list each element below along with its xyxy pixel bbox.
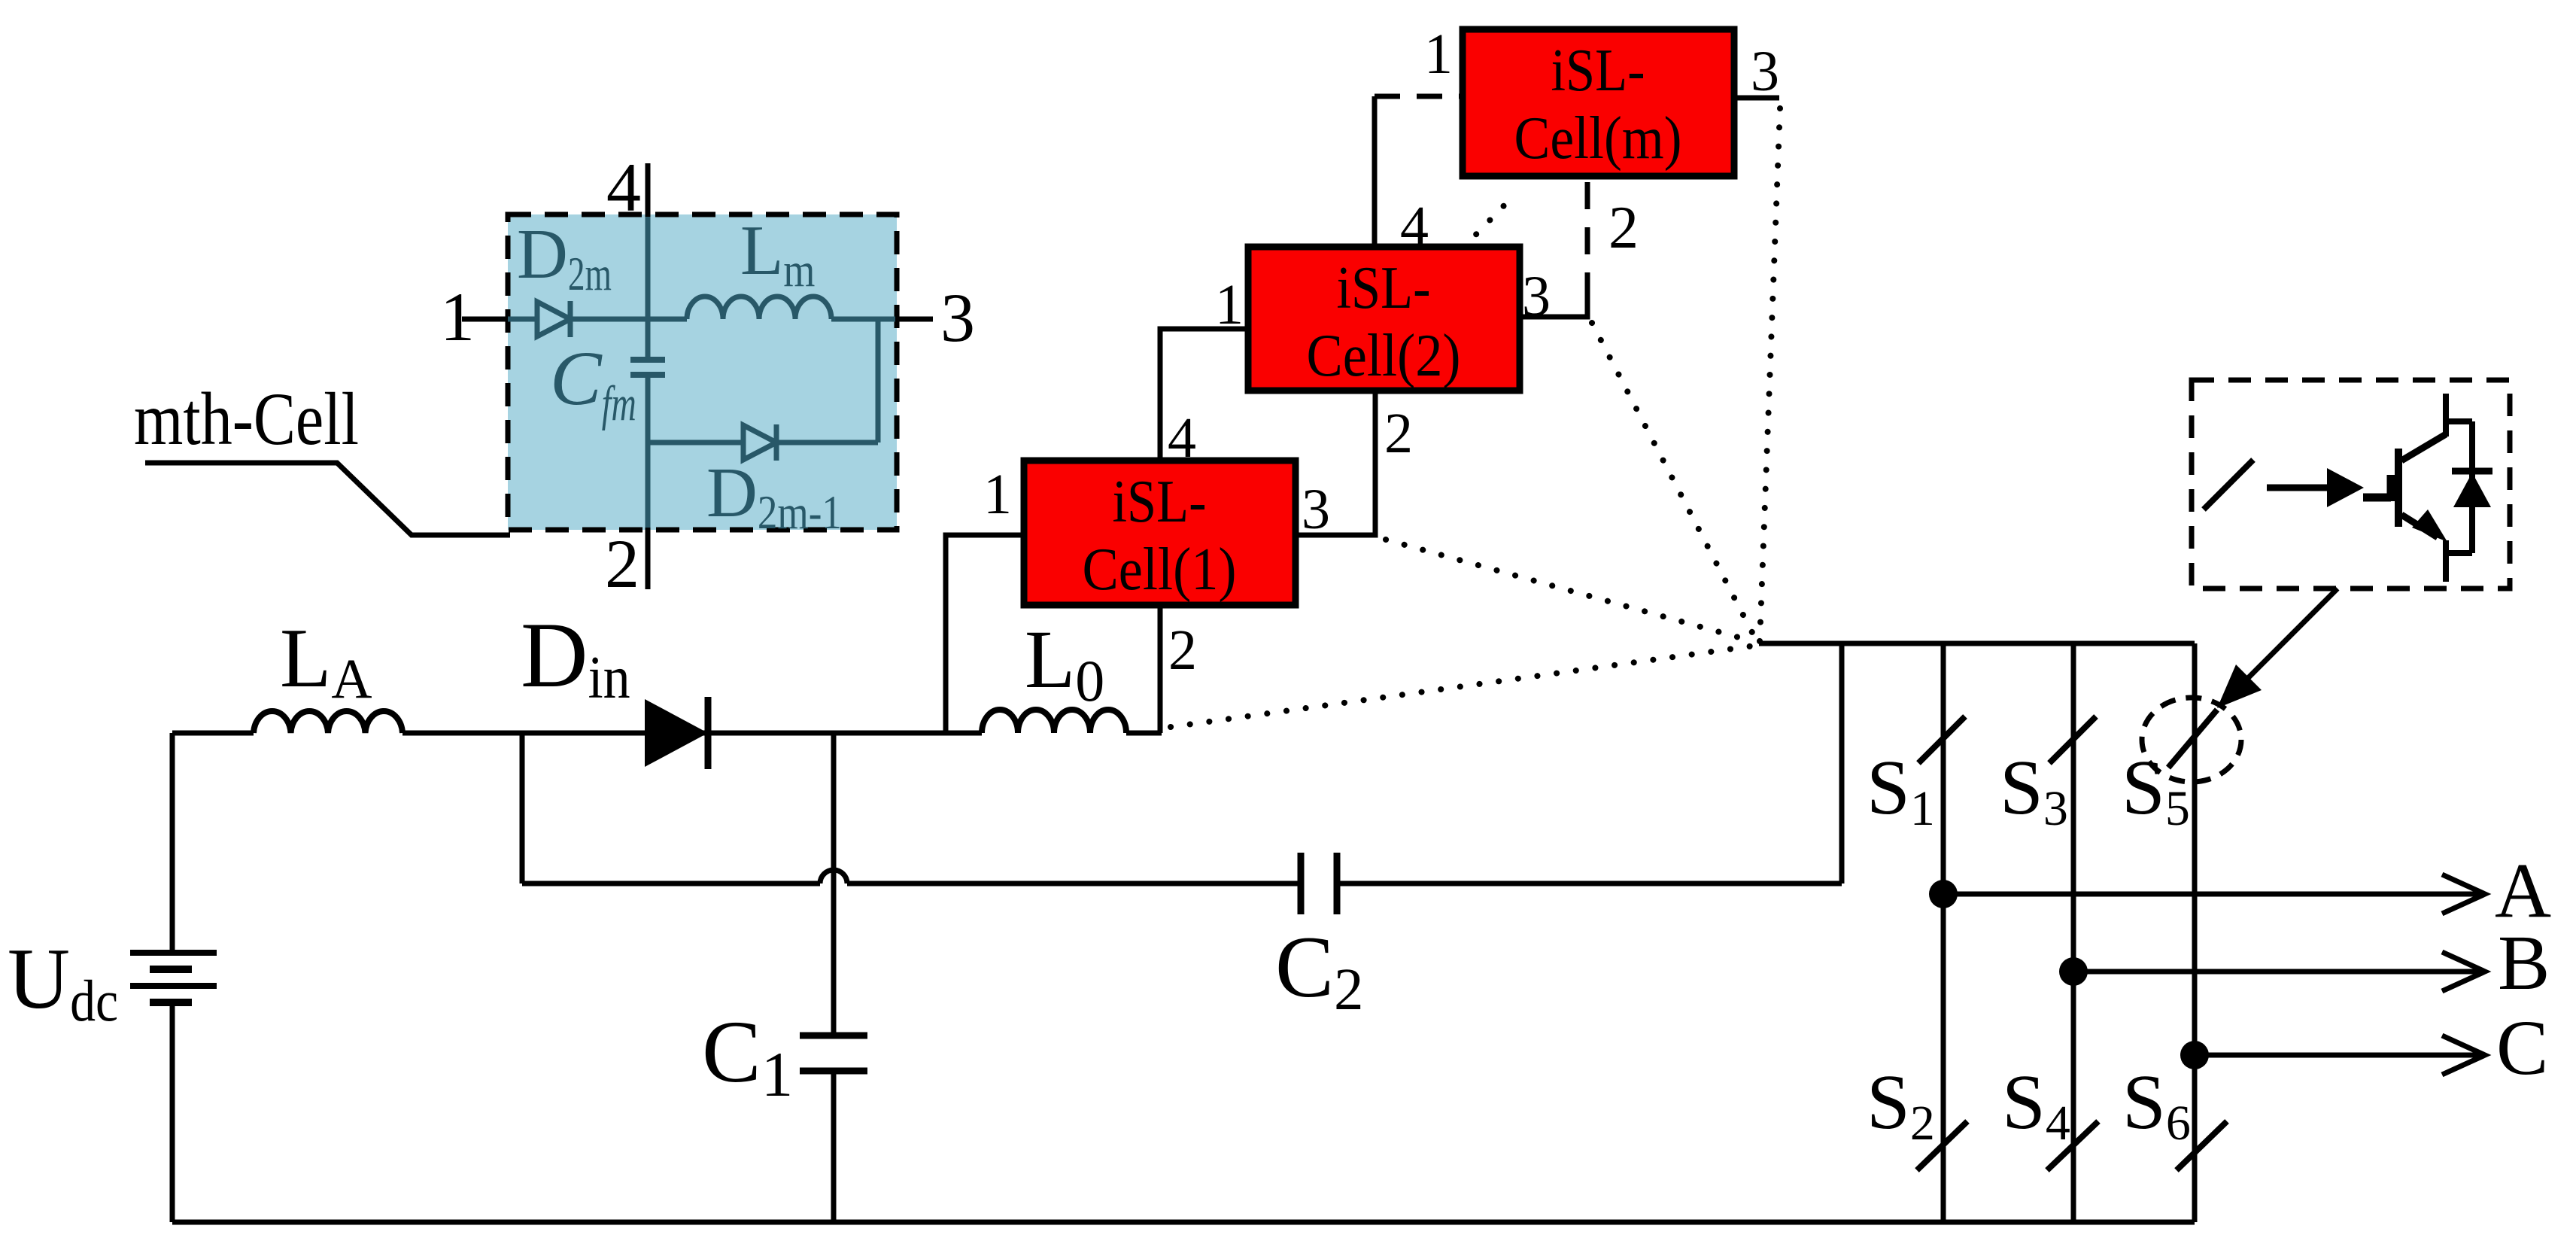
iSL-Cell(2) block: [1248, 247, 1520, 391]
wire: teal pin1 wire to diode D2m: [508, 317, 537, 322]
arrowhead phase A: [2442, 874, 2485, 914]
wire: arrow from detail box to S5 switch: [2236, 589, 2338, 690]
arrowhead phase B: [2442, 952, 2485, 991]
inductor Lm: [687, 297, 831, 319]
svg-text:S4: S4: [2002, 1059, 2070, 1151]
wire: input top wire from source to LA: [172, 731, 254, 736]
wire: C1 vertical upper: [831, 733, 837, 1036]
diode Din: [645, 697, 708, 769]
svg-text:LA: LA: [280, 612, 372, 710]
svg-text:3: 3: [1302, 478, 1330, 541]
wire: vertical drop before Din to C2 wire: [520, 733, 525, 884]
wire: cell1 pin4 to cell2 pin1: [1160, 329, 1248, 461]
svg-text:C: C: [2496, 1005, 2548, 1091]
svg-text:iSL-: iSL-: [1551, 36, 1645, 104]
wire: dotted link from cell1 pin3 to inverter rail: [1386, 540, 1755, 642]
svg-text:2: 2: [1608, 195, 1639, 261]
wire: dotted link from cellm pin3 to inverter rail: [1760, 108, 1780, 641]
svg-text:iSL-: iSL-: [1337, 254, 1431, 321]
wire: top wire from LA through Din to L0: [402, 731, 982, 736]
battery Udc: [130, 953, 217, 1002]
wire: cell2 pin4 vertical: [1372, 96, 1378, 247]
svg-text:B: B: [2498, 920, 2550, 1006]
svg-text:3: 3: [1522, 265, 1551, 328]
wire: teal center vertical lower: [646, 376, 651, 528]
iSL-Cell(m) block: [1463, 29, 1734, 176]
switch slash symbol inside detail box: [2204, 460, 2253, 509]
diode anti-parallel with IGBT: [2452, 421, 2492, 553]
svg-text:1: 1: [440, 278, 475, 355]
wire: C2 horizontal wire left part: [522, 881, 820, 887]
wire: cellm pin3 stub: [1734, 96, 1779, 101]
wire: L0 right terminal: [1126, 731, 1162, 736]
switch S2 slash: [1917, 1121, 1967, 1170]
inductor LA: [254, 711, 402, 733]
wire: teal center vertical upper: [646, 217, 651, 358]
svg-text:1: 1: [1215, 273, 1244, 336]
wire: teal right vertical: [876, 319, 881, 443]
wire: cell2 pin3 stub: [1520, 300, 1587, 317]
arrowhead phase C: [2442, 1036, 2485, 1075]
svg-text:Cell(1): Cell(1): [1083, 535, 1237, 603]
diode D2m-1: [743, 424, 776, 461]
svg-text:mth-Cell: mth-Cell: [134, 377, 359, 461]
arrow equivalence inside detail box: [2267, 468, 2364, 507]
wire: C2 horizontal wire right part: [1337, 881, 1842, 887]
wire: dotted link from L0 terminal to inverter rail: [1171, 646, 1754, 727]
wire: phase A output: [1943, 892, 2483, 897]
svg-text:1: 1: [983, 463, 1012, 526]
svg-text:S6: S6: [2122, 1059, 2191, 1151]
wire: pin2 stub of mth cell: [646, 528, 651, 589]
svg-text:Cell(2): Cell(2): [1307, 321, 1461, 389]
wire: bottom rail: [172, 1220, 2195, 1225]
wire: pointer from mth-Cell label to box: [145, 463, 510, 535]
wire: left vertical from top wire to battery: [170, 733, 175, 953]
switch S6 slash: [2177, 1121, 2227, 1170]
wire: phase C output: [2195, 1053, 2483, 1058]
switch S5 slash: [2168, 710, 2217, 768]
node A junction dot: [1929, 880, 1958, 908]
switch S1 slash: [1918, 716, 1965, 763]
wire: inverter leg S3 S4: [2071, 643, 2076, 1222]
capacitor Cfm: [630, 360, 665, 375]
wire: pin1 stub of mth cell: [462, 317, 508, 322]
wire: dotted link from cell2 pin3 to inverter rail: [1592, 323, 1756, 640]
svg-text:4: 4: [606, 149, 641, 226]
wire: pin4 stub of mth cell: [646, 163, 651, 217]
wire: inverter leg S5 S6: [2192, 643, 2198, 1222]
wire: teal wire D2m-1 to right vertical: [776, 440, 878, 446]
wire: inverter leg S1 S2: [1941, 643, 1946, 1222]
diode D2m: [537, 301, 570, 337]
svg-text:3: 3: [1751, 40, 1779, 103]
node C junction dot: [2180, 1041, 2209, 1069]
svg-text:3: 3: [940, 279, 975, 356]
wire: vertical from C2 wire up to inverter rail: [1839, 643, 1845, 884]
svg-text:Din: Din: [521, 604, 630, 711]
wire: left vertical from battery to bottom rail: [170, 1002, 175, 1222]
mth-Cell detail box: [508, 214, 897, 530]
svg-text:2: 2: [605, 525, 639, 602]
wire: pin3 stub of mth cell: [895, 317, 933, 322]
capacitor C2: [1301, 853, 1337, 914]
wire: crossover hop over C1 wire: [820, 870, 847, 884]
wire: teal wire diode D2m to center node: [570, 317, 687, 322]
switch S4 slash: [2047, 1121, 2098, 1170]
wire: C1 vertical lower: [831, 1071, 837, 1222]
inductor L0: [982, 710, 1126, 733]
svg-text:C1: C1: [702, 1002, 793, 1110]
svg-text:S2: S2: [1867, 1059, 1935, 1151]
svg-text:C2: C2: [1275, 919, 1364, 1023]
wire: cell1 pin3 to cell2 pin2 corner: [1296, 391, 1375, 535]
node B junction dot: [2059, 957, 2088, 986]
capacitor C1: [800, 1036, 867, 1071]
svg-text:4: 4: [1168, 406, 1196, 470]
transistor IGBT symbol: [2363, 394, 2472, 582]
dashed ellipse around S5 switch: [2142, 698, 2241, 782]
wire: inverter top rail: [1759, 641, 2195, 646]
wire: C2 horizontal wire middle part: [847, 881, 1301, 887]
svg-text:2: 2: [1384, 402, 1413, 465]
wire: dotted ellipsis between cell2 and cellm: [1463, 199, 1511, 248]
IGBT emitter arrowhead: [2412, 509, 2447, 542]
svg-text:4: 4: [1400, 195, 1429, 258]
wire: phase B output: [2073, 969, 2483, 975]
svg-text:iSL-: iSL-: [1113, 467, 1207, 535]
wire: teal bottom wire to diode D2m-1: [648, 440, 743, 446]
svg-text:1: 1: [1424, 23, 1453, 86]
iSL-Cell(1) block: [1024, 461, 1296, 605]
IGBT detail dashed box: [2192, 380, 2510, 589]
svg-text:Cell(m): Cell(m): [1514, 104, 1682, 172]
wire: cell1 pin1 vertical and horizontal: [946, 535, 1024, 733]
wire: dashed cellm pin2 vertical: [1585, 176, 1590, 300]
svg-text:L0: L0: [1025, 613, 1104, 713]
wire: teal wire Lm to pin3: [831, 317, 895, 322]
arrowhead pointing to S5: [2217, 665, 2262, 708]
svg-text:Udc: Udc: [8, 931, 118, 1033]
wire: dashed link cell2 pin4 to cellm pin1: [1375, 94, 1463, 99]
wire: cell1 pin2 vertical: [1158, 605, 1163, 733]
svg-text:2: 2: [1168, 619, 1197, 682]
switch S3 slash: [2049, 716, 2096, 763]
